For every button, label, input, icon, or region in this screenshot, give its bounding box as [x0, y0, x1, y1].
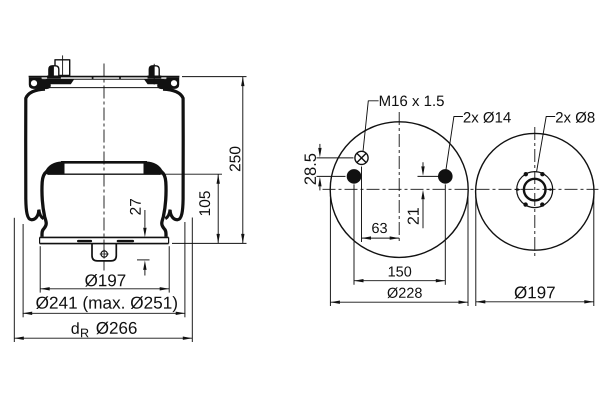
dimension 63 [362, 167, 400, 243]
dimension 250 [182, 77, 247, 244]
dimension diameter 241 max 251 [23, 222, 186, 317]
dimension diameter 197 right view [476, 196, 594, 306]
dimension 150 [354, 184, 445, 284]
leader 2x d14 [446, 117, 463, 170]
air fitting M16 [55, 55, 70, 75]
weld dots on plate [92, 77, 94, 79]
hub side marks [515, 188, 521, 190]
air port M16 symbol [355, 151, 368, 164]
lobe junction right [165, 210, 170, 219]
hub detail dots [524, 172, 528, 176]
dimension diameter 197 bottom [40, 246, 169, 292]
bellows outer wall right [163, 89, 183, 220]
piston rim line [48, 173, 161, 175]
centerlines middle view [323, 112, 599, 241]
top view circle [330, 122, 468, 258]
bead roll left [29, 77, 51, 89]
mount boss under plate right [144, 79, 165, 84]
top plate [29, 77, 180, 88]
dimension 21 [418, 162, 442, 228]
bottom boss with bolt hole [92, 244, 116, 261]
dimension 105 [159, 174, 247, 243]
stud left [47, 66, 61, 79]
leader M16 x 1.5 [363, 101, 379, 152]
bottom plate [40, 237, 169, 243]
stud hole left [347, 169, 362, 184]
hub outer circle [517, 172, 553, 208]
dimension 27 [137, 210, 150, 276]
bead roll right [157, 77, 179, 89]
centerline left view [103, 64, 105, 271]
dimension 28.5 [317, 144, 354, 191]
piston plateau with rubber chamfers [45, 161, 163, 174]
leader 2x d8 [537, 117, 556, 172]
hub bore [524, 179, 546, 201]
mount boss under plate left [45, 79, 74, 84]
dimension dR diameter 266 [14, 218, 192, 343]
centerline right view vertical [534, 127, 536, 259]
stud hole right [438, 169, 453, 184]
piston side wall left (rubber covered) [42, 172, 47, 237]
lobe junction left [39, 210, 44, 219]
piston side wall right [161, 172, 166, 237]
stud right [148, 64, 162, 85]
dimension diameter 228 [330, 195, 468, 306]
bellows outer wall left [26, 89, 45, 220]
bottom view circle [476, 133, 594, 250]
